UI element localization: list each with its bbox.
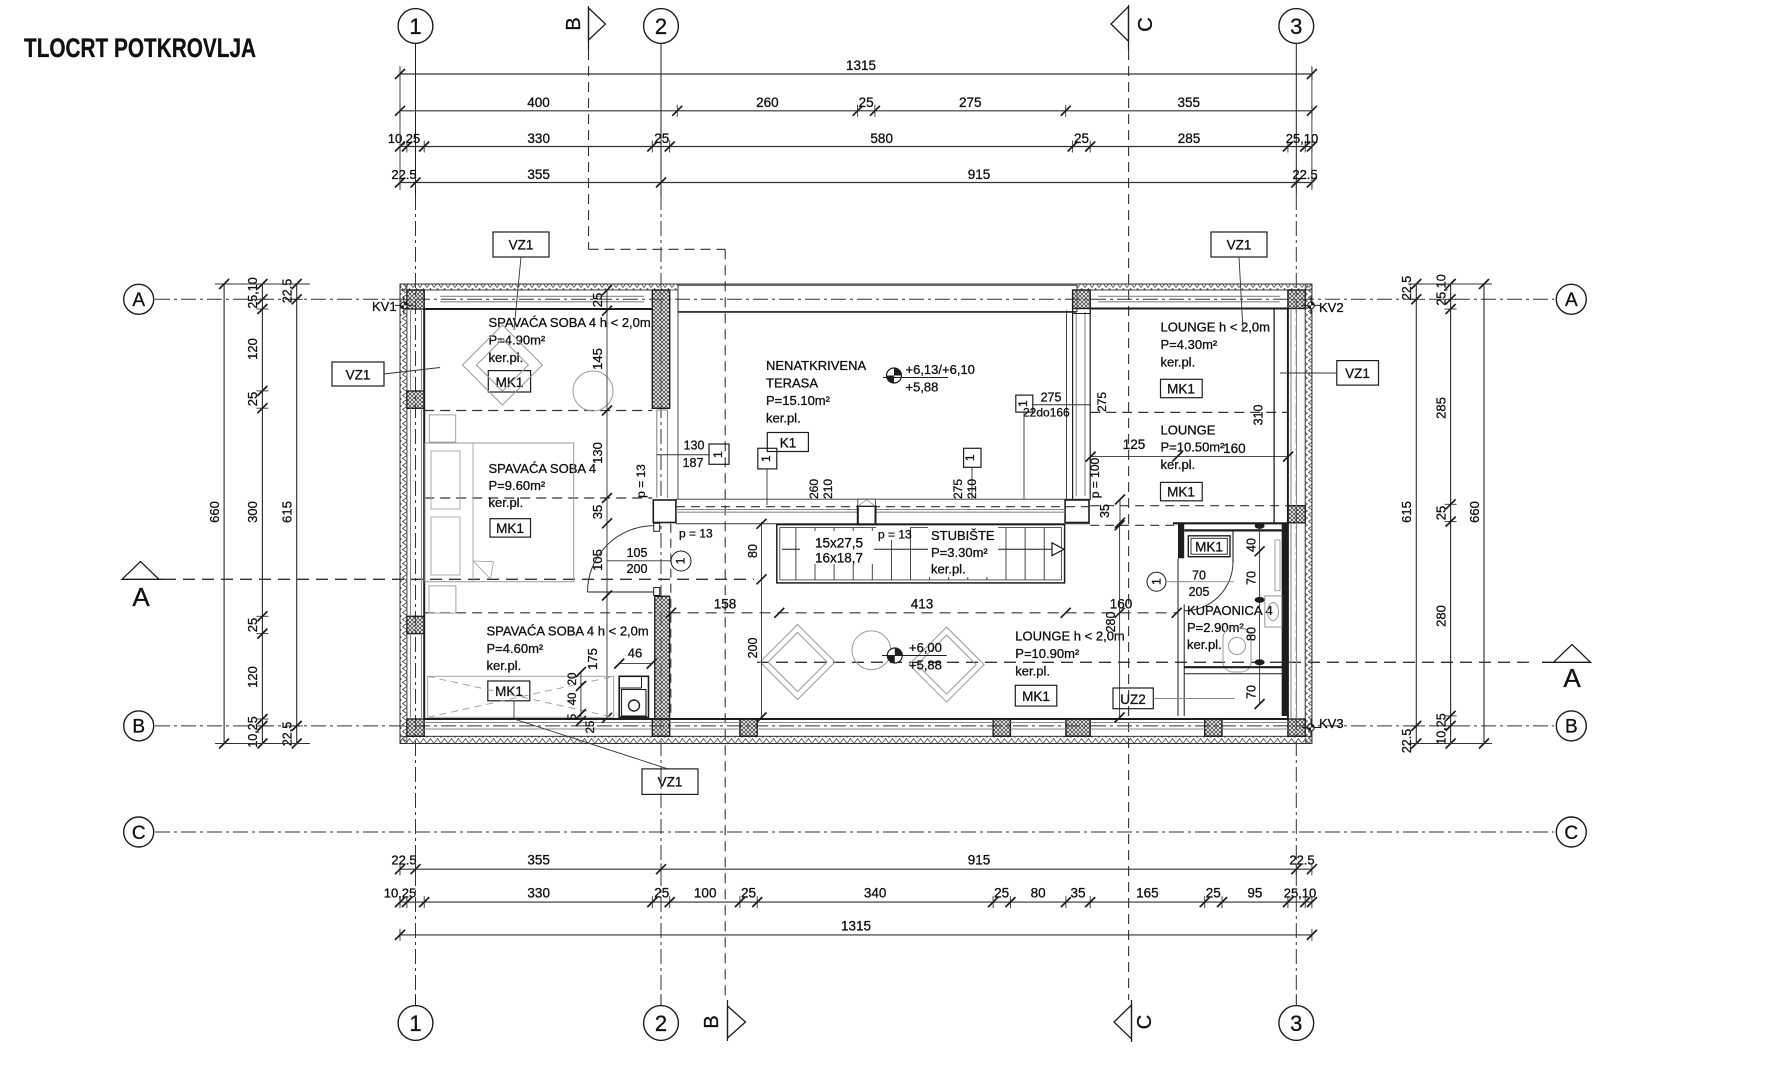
svg-text:1: 1 bbox=[759, 455, 773, 462]
pier right wall parapet row bbox=[1288, 506, 1305, 523]
svg-text:A: A bbox=[132, 582, 150, 612]
svg-text:P=4.60m²: P=4.60m² bbox=[487, 641, 544, 656]
room label lounge-mid-right bbox=[1161, 423, 1226, 472]
section marker B bottom bbox=[701, 1000, 746, 1041]
grid line 2 (vertical dash-dot) bbox=[660, 195, 662, 996]
door bedroom2 bbox=[588, 523, 660, 595]
bed bedroom2 bbox=[425, 443, 574, 582]
svg-text:1: 1 bbox=[1150, 578, 1164, 585]
svg-text:80: 80 bbox=[746, 544, 760, 558]
svg-text:2: 2 bbox=[655, 1011, 667, 1036]
svg-text:22.5: 22.5 bbox=[391, 853, 416, 868]
grid line C (horizontal dash-dot) bbox=[155, 831, 1554, 833]
dashed rows right block parapet bbox=[1090, 506, 1288, 526]
svg-text:25: 25 bbox=[654, 886, 669, 901]
svg-text:P=9.60m²: P=9.60m² bbox=[489, 478, 546, 493]
insulation hatch left wall bbox=[400, 284, 407, 744]
label box MK1 bathroom bbox=[1188, 536, 1230, 557]
grid bubble C right bbox=[1556, 817, 1586, 847]
room label bedroom3 bbox=[487, 624, 649, 674]
svg-text:UZ2: UZ2 bbox=[1120, 692, 1146, 707]
grid bubble 1 bottom bbox=[398, 996, 433, 1040]
grid line A (horizontal dash-dot) bbox=[155, 298, 1554, 300]
dashed line h2m bedroom1 bbox=[424, 410, 652, 412]
svg-text:70: 70 bbox=[1245, 571, 1259, 585]
svg-text:355: 355 bbox=[527, 167, 550, 182]
label box UZ2 bbox=[1113, 688, 1235, 709]
svg-text:280: 280 bbox=[1434, 605, 1449, 627]
grid bubble 2 top bbox=[644, 9, 679, 195]
svg-text:25: 25 bbox=[590, 293, 605, 307]
washbasin bbox=[1265, 596, 1282, 627]
room label terrace bbox=[766, 358, 866, 426]
door tag bedroom2 bbox=[607, 546, 691, 576]
window bottom wall x1010 bbox=[1010, 723, 1066, 730]
parapet dashes bbox=[676, 506, 1089, 508]
svg-text:200: 200 bbox=[627, 562, 648, 576]
dimension row 10,25/330/25/580/25/285/25,10 top bbox=[388, 131, 1319, 153]
dimension 1315 bottom bbox=[395, 919, 1317, 941]
label box MK1 bedroom3 bbox=[488, 681, 530, 701]
insulation hatch top right block bbox=[1077, 284, 1312, 290]
svg-text:1: 1 bbox=[409, 14, 421, 39]
svg-text:MK1: MK1 bbox=[496, 521, 524, 536]
dim 275/210 terrace right bbox=[951, 479, 979, 499]
svg-text:40: 40 bbox=[567, 693, 579, 706]
svg-text:615: 615 bbox=[280, 501, 295, 523]
pier bottom x1205 bbox=[1205, 719, 1222, 736]
label box MK1 bedroom1 bbox=[488, 371, 530, 392]
room label lounge-top-right bbox=[1161, 319, 1270, 369]
dimension col 22.5/615/22.5 left bbox=[280, 279, 303, 749]
top wall inner face right block bbox=[1090, 308, 1288, 310]
svg-text:175: 175 bbox=[585, 648, 600, 670]
grid bubble 3 bottom bbox=[1279, 996, 1314, 1040]
svg-text:210: 210 bbox=[821, 479, 835, 499]
tag 1 275/22do166 bbox=[1016, 391, 1091, 500]
svg-text:SPAVAĆA SOBA 4 h < 2,0m: SPAVAĆA SOBA 4 h < 2,0m bbox=[489, 315, 651, 330]
svg-text:P=4.30m²: P=4.30m² bbox=[1161, 337, 1218, 352]
grid line 3 (vertical dash-dot) bbox=[1295, 195, 1297, 996]
svg-text:STUBIŠTE: STUBIŠTE bbox=[931, 528, 995, 543]
svg-text:330: 330 bbox=[527, 886, 550, 901]
stairs text box bbox=[800, 531, 874, 566]
svg-text:125: 125 bbox=[1123, 437, 1146, 452]
room label bedroom1 bbox=[489, 315, 651, 365]
svg-text:285: 285 bbox=[1178, 131, 1201, 146]
right block left wall faces bbox=[1073, 309, 1091, 501]
dim 35 right block bbox=[1098, 495, 1125, 528]
pier top-left corner bbox=[407, 290, 424, 309]
svg-text:260: 260 bbox=[807, 479, 821, 499]
label box MK1 bedroom2 bbox=[490, 519, 531, 537]
shower shelf bbox=[1275, 540, 1280, 591]
svg-text:300: 300 bbox=[245, 501, 260, 523]
parapet glass left bbox=[676, 510, 858, 513]
parapet right end block bbox=[1065, 500, 1089, 523]
svg-text:KV3: KV3 bbox=[1319, 716, 1344, 731]
left wall inner face bbox=[423, 309, 425, 719]
armchair diamond lounge right bbox=[909, 627, 984, 702]
section line B (dashed, jogged) bbox=[589, 50, 726, 1000]
window bottom wall lounge bbox=[757, 723, 993, 730]
svg-text:p = 13: p = 13 bbox=[634, 464, 648, 498]
svg-text:B: B bbox=[132, 717, 145, 738]
svg-text:105: 105 bbox=[627, 546, 648, 560]
svg-text:80: 80 bbox=[1245, 627, 1259, 641]
svg-text:VZ1: VZ1 bbox=[658, 775, 683, 790]
parapet center pier bbox=[858, 499, 876, 524]
svg-text:A: A bbox=[1563, 663, 1581, 693]
dim 310 right block bbox=[1251, 309, 1274, 524]
grid bubble C left bbox=[124, 817, 154, 847]
svg-text:1: 1 bbox=[711, 451, 725, 458]
insulation hatch bottom wall bbox=[400, 736, 1312, 743]
svg-text:A: A bbox=[1565, 290, 1578, 311]
svg-text:25: 25 bbox=[994, 886, 1009, 901]
terrace north parapet bbox=[678, 285, 1077, 312]
svg-text:35: 35 bbox=[590, 505, 605, 519]
svg-text:210: 210 bbox=[965, 479, 979, 499]
room label bedroom2 bbox=[489, 461, 597, 510]
svg-text:1: 1 bbox=[674, 557, 688, 564]
survey mark KV1 bbox=[372, 296, 413, 314]
svg-text:ker.pl.: ker.pl. bbox=[489, 495, 524, 510]
dimension 660 right bbox=[1467, 279, 1490, 749]
window bottom wall x1222 bbox=[1222, 723, 1288, 730]
window bottom wall corridor bbox=[670, 723, 740, 730]
svg-text:25,10: 25,10 bbox=[1435, 274, 1449, 305]
svg-text:16x18,7: 16x18,7 bbox=[815, 551, 863, 566]
svg-text:25: 25 bbox=[1434, 506, 1449, 520]
svg-text:ker.pl.: ker.pl. bbox=[766, 411, 801, 426]
tag box 1 terrace left bbox=[758, 448, 777, 505]
extension lines right columns bbox=[1408, 284, 1492, 744]
section line C (dashed) bbox=[1128, 50, 1130, 1000]
label p100 right block window bbox=[1088, 457, 1102, 498]
right wall band boundary bbox=[1304, 290, 1306, 736]
svg-text:205: 205 bbox=[1189, 585, 1210, 599]
elevation mark terrace bbox=[883, 362, 975, 395]
label box VZ1 left bbox=[332, 362, 440, 386]
svg-text:615: 615 bbox=[1399, 501, 1414, 523]
svg-text:KV1: KV1 bbox=[372, 299, 397, 314]
extension line left top bbox=[399, 66, 401, 190]
pier bottom x740 bbox=[740, 719, 757, 736]
svg-text:160: 160 bbox=[1110, 597, 1133, 612]
pier left wall row3 bbox=[407, 616, 424, 633]
pier bottom grid2 bbox=[652, 719, 669, 736]
svg-text:SPAVAĆA SOBA 4 h < 2,0m: SPAVAĆA SOBA 4 h < 2,0m bbox=[487, 624, 649, 639]
svg-text:KV2: KV2 bbox=[1319, 300, 1344, 315]
svg-text:TERASA: TERASA bbox=[766, 376, 818, 391]
section marker C top bbox=[1111, 5, 1157, 50]
svg-text:ker.pl.: ker.pl. bbox=[489, 350, 524, 365]
dimension col 20/40/5 kitchen bbox=[567, 667, 586, 726]
bathroom top wall bbox=[1173, 523, 1288, 530]
svg-text:25,10: 25,10 bbox=[1284, 886, 1317, 901]
bathroom right wall bbox=[1282, 524, 1288, 716]
svg-text:413: 413 bbox=[911, 597, 934, 612]
svg-text:25: 25 bbox=[741, 886, 756, 901]
svg-text:15x27,5: 15x27,5 bbox=[815, 536, 863, 551]
label box VZ1 top bbox=[493, 232, 549, 330]
svg-text:310: 310 bbox=[1251, 405, 1265, 426]
armchair diamond bedroom1 bbox=[462, 325, 542, 405]
tag box 1 terrace right bbox=[963, 448, 981, 499]
svg-text:22.5: 22.5 bbox=[1292, 167, 1317, 182]
svg-text:22.5: 22.5 bbox=[1400, 729, 1414, 753]
top wall inner face left block bbox=[424, 308, 652, 310]
elevation mark lounge bbox=[882, 640, 947, 673]
svg-text:35: 35 bbox=[1098, 504, 1112, 518]
exterior wall outline bbox=[400, 284, 1312, 744]
svg-text:10,25: 10,25 bbox=[388, 131, 421, 146]
grid bubble 3 top bbox=[1279, 9, 1314, 195]
svg-text:K1: K1 bbox=[780, 436, 797, 451]
dimension col 80/200 lounge bbox=[746, 519, 767, 723]
extension line right top bbox=[1311, 66, 1313, 190]
label box MK1 lounge bbox=[1015, 685, 1057, 706]
window left wall middle bbox=[411, 408, 422, 616]
grid bubble B right bbox=[1556, 711, 1586, 741]
label 160 window bbox=[1223, 441, 1246, 456]
svg-text:22do166: 22do166 bbox=[1023, 406, 1070, 420]
svg-text:120: 120 bbox=[245, 666, 260, 688]
svg-text:46: 46 bbox=[628, 646, 642, 661]
svg-text:22.5: 22.5 bbox=[281, 722, 295, 746]
svg-text:25,10: 25,10 bbox=[1286, 131, 1319, 146]
svg-text:20: 20 bbox=[567, 673, 579, 686]
svg-text:C: C bbox=[1135, 17, 1157, 31]
bed dashed bedroom3 bbox=[428, 676, 614, 717]
svg-text:+5,88: +5,88 bbox=[906, 380, 939, 395]
svg-text:TLOCRT POTKROVLJA: TLOCRT POTKROVLJA bbox=[24, 33, 256, 63]
svg-text:25: 25 bbox=[654, 131, 669, 146]
svg-text:160: 160 bbox=[1223, 441, 1246, 456]
svg-text:10,25: 10,25 bbox=[384, 886, 417, 901]
room label lounge bbox=[1015, 629, 1124, 679]
svg-text:35: 35 bbox=[1070, 886, 1085, 901]
svg-text:10,25: 10,25 bbox=[1435, 713, 1449, 744]
grid bubble 1 top bbox=[398, 9, 433, 195]
svg-text:P=10.50m²: P=10.50m² bbox=[1161, 440, 1226, 455]
pier bottom x993 bbox=[993, 719, 1010, 736]
svg-text:VZ1: VZ1 bbox=[1227, 238, 1252, 253]
dim 70 below bathroom bbox=[0, 0, 1, 1]
window top wall lounge bbox=[1098, 296, 1280, 302]
svg-text:70: 70 bbox=[1245, 685, 1259, 699]
dimension col 22.5/615/22.5 right bbox=[1399, 276, 1422, 753]
grid bubble B left bbox=[124, 711, 154, 741]
svg-text:VZ1: VZ1 bbox=[509, 238, 534, 253]
svg-text:B: B bbox=[701, 1015, 723, 1028]
svg-text:100: 100 bbox=[694, 886, 717, 901]
svg-text:3: 3 bbox=[1290, 14, 1302, 39]
dimension 660 left bbox=[207, 279, 230, 749]
section line A right (dashed) bbox=[757, 661, 1531, 663]
svg-text:340: 340 bbox=[864, 886, 887, 901]
bathroom left wall upper bbox=[1178, 523, 1184, 558]
svg-text:120: 120 bbox=[245, 338, 260, 360]
dimension col 280 lounge right bbox=[1104, 520, 1125, 722]
room boundary line below parapet bbox=[676, 523, 1090, 525]
pier top-right corner bbox=[1288, 290, 1305, 309]
kitchenette appliance bbox=[619, 676, 648, 717]
label box K1 bbox=[767, 433, 808, 452]
parapet left end block bbox=[653, 500, 676, 523]
dashed line h2m bedroom2 bbox=[424, 497, 652, 499]
dimension row 400/260/25/275/355 top bbox=[395, 95, 1317, 117]
svg-text:MK1: MK1 bbox=[1195, 540, 1223, 555]
svg-text:22.5: 22.5 bbox=[391, 167, 416, 182]
svg-text:LOUNGE: LOUNGE bbox=[1161, 423, 1216, 438]
svg-text:+6,00: +6,00 bbox=[909, 640, 942, 655]
svg-text:25: 25 bbox=[245, 618, 260, 632]
svg-text:915: 915 bbox=[968, 167, 991, 182]
dim 25 bottom wall label bbox=[585, 721, 597, 734]
svg-text:260: 260 bbox=[756, 95, 779, 110]
svg-text:22.5: 22.5 bbox=[1400, 276, 1414, 300]
bottom wall band boundary bbox=[400, 735, 1312, 737]
svg-text:ker.pl.: ker.pl. bbox=[1187, 637, 1222, 652]
window bottom wall x1090 bbox=[1090, 723, 1205, 730]
svg-text:MK1: MK1 bbox=[1167, 485, 1195, 500]
svg-text:B: B bbox=[563, 17, 585, 30]
pier bottom x1066 bbox=[1066, 719, 1090, 736]
svg-text:145: 145 bbox=[590, 348, 605, 370]
dim 260/210 terrace left bbox=[807, 479, 835, 499]
svg-text:P=10.90m²: P=10.90m² bbox=[1015, 646, 1080, 661]
svg-text:660: 660 bbox=[207, 501, 222, 523]
label box VZ1 right bbox=[1280, 361, 1379, 386]
label box VZ1 top-right bbox=[1211, 232, 1267, 330]
table circle lounge bbox=[852, 631, 891, 670]
svg-text:MK1: MK1 bbox=[1167, 382, 1195, 397]
svg-text:22.5: 22.5 bbox=[281, 279, 295, 303]
insulation hatch top left block bbox=[400, 284, 678, 290]
dashed line corridor edge bbox=[670, 524, 672, 719]
svg-text:p = 100: p = 100 bbox=[1088, 457, 1102, 498]
svg-text:95: 95 bbox=[1247, 886, 1262, 901]
svg-text:660: 660 bbox=[1467, 501, 1482, 523]
stairs label STUBISTE bbox=[928, 527, 998, 577]
svg-text:25: 25 bbox=[245, 392, 260, 406]
svg-text:P=15.10m²: P=15.10m² bbox=[766, 393, 831, 408]
grid bubble 2 bottom bbox=[644, 996, 679, 1040]
dimension row 10,25/330/25/100/25/340/25/80/35/165/25/95/25,10 bottom bbox=[384, 886, 1317, 909]
dimension row 22.5/355/915/22.5 top bbox=[391, 167, 1317, 189]
svg-text:1: 1 bbox=[963, 454, 977, 461]
window right wall lower bbox=[1291, 523, 1297, 719]
dimension col 25/145/130/35/105/175 interior bbox=[585, 285, 612, 723]
svg-text:165: 165 bbox=[1136, 886, 1159, 901]
svg-text:ker.pl.: ker.pl. bbox=[1161, 457, 1196, 472]
pier bottom-right corner bbox=[1288, 719, 1305, 736]
window left wall lower bbox=[411, 634, 422, 719]
svg-text:B: B bbox=[1565, 717, 1578, 738]
dim 275 right block window bbox=[1095, 392, 1109, 412]
dimension col 25,10/285/25/280/10,25 right bbox=[1434, 274, 1457, 748]
section marker A left bbox=[122, 562, 164, 613]
window right wall VZ1 bbox=[1291, 309, 1297, 506]
label box VZ1 bottom bbox=[514, 701, 698, 794]
svg-text:+6,13/+6,10: +6,13/+6,10 bbox=[906, 362, 975, 377]
window bottom wall VZ1 bbox=[424, 723, 652, 730]
svg-text:70: 70 bbox=[1192, 569, 1206, 583]
svg-text:130: 130 bbox=[684, 439, 705, 453]
svg-text:355: 355 bbox=[527, 853, 550, 868]
survey mark KV2 bbox=[1302, 296, 1344, 315]
stairs label p13 bbox=[876, 527, 912, 542]
svg-text:2: 2 bbox=[655, 14, 667, 39]
svg-text:p = 13: p = 13 bbox=[679, 527, 713, 541]
svg-text:25: 25 bbox=[1074, 131, 1089, 146]
terrace floor edge line bbox=[676, 498, 1089, 500]
section marker B top bbox=[563, 6, 606, 50]
terrace slab edge right bbox=[1066, 310, 1068, 500]
svg-text:5: 5 bbox=[567, 714, 579, 720]
svg-text:VZ1: VZ1 bbox=[346, 368, 371, 383]
dashed dim row 158/413/160 bbox=[666, 597, 1182, 618]
pier bottom-left corner bbox=[407, 719, 424, 736]
window grid2 wall bbox=[657, 410, 668, 498]
staircase bbox=[777, 525, 1065, 583]
pier top grid2 bbox=[652, 290, 669, 408]
svg-text:25: 25 bbox=[1206, 886, 1221, 901]
svg-text:330: 330 bbox=[527, 131, 550, 146]
svg-text:LOUNGE h < 2,0m: LOUNGE h < 2,0m bbox=[1161, 319, 1270, 334]
window right-block left wall bbox=[1073, 309, 1091, 497]
svg-text:ker.pl.: ker.pl. bbox=[487, 658, 522, 673]
toilet bbox=[1223, 628, 1251, 672]
dashed line h2m bedroom3 bbox=[424, 612, 652, 614]
window left wall VZ1 upper bbox=[411, 309, 422, 391]
svg-text:400: 400 bbox=[527, 95, 550, 110]
left wall band boundary bbox=[406, 290, 408, 736]
extension lines left columns bbox=[215, 284, 310, 744]
svg-text:3: 3 bbox=[1290, 1011, 1302, 1036]
svg-text:200: 200 bbox=[746, 638, 760, 659]
svg-text:C: C bbox=[1134, 1015, 1156, 1029]
dim 46 kitchenette bbox=[614, 646, 657, 669]
room label bathroom bbox=[1187, 603, 1273, 652]
grid bubble A right bbox=[1556, 284, 1586, 314]
grid bubble A left bbox=[124, 284, 154, 314]
svg-text:80: 80 bbox=[1031, 886, 1046, 901]
section marker A right bbox=[1542, 645, 1591, 694]
svg-text:580: 580 bbox=[870, 131, 893, 146]
title TLOCRT POTKROVLJA bbox=[24, 33, 256, 63]
svg-text:275: 275 bbox=[959, 95, 982, 110]
svg-text:25,10: 25,10 bbox=[246, 277, 260, 308]
svg-text:275: 275 bbox=[1095, 392, 1109, 412]
svg-text:280: 280 bbox=[1104, 612, 1118, 633]
svg-text:C: C bbox=[1564, 823, 1578, 844]
bottom wall inner face bbox=[424, 718, 1288, 720]
svg-text:355: 355 bbox=[1178, 95, 1201, 110]
svg-text:25: 25 bbox=[585, 721, 597, 734]
svg-text:+5,88: +5,88 bbox=[909, 658, 942, 673]
svg-text:22.5: 22.5 bbox=[1289, 853, 1314, 868]
grid line B (horizontal dash-dot) bbox=[155, 725, 1554, 727]
section marker C bottom bbox=[1114, 1000, 1156, 1042]
svg-text:40: 40 bbox=[1245, 538, 1259, 552]
svg-text:187: 187 bbox=[683, 456, 704, 470]
terrace slab edge left bbox=[677, 312, 679, 499]
dimension col 40/70/80/70 bathroom bbox=[1245, 523, 1265, 709]
svg-text:NENATKRIVENA: NENATKRIVENA bbox=[766, 358, 866, 373]
